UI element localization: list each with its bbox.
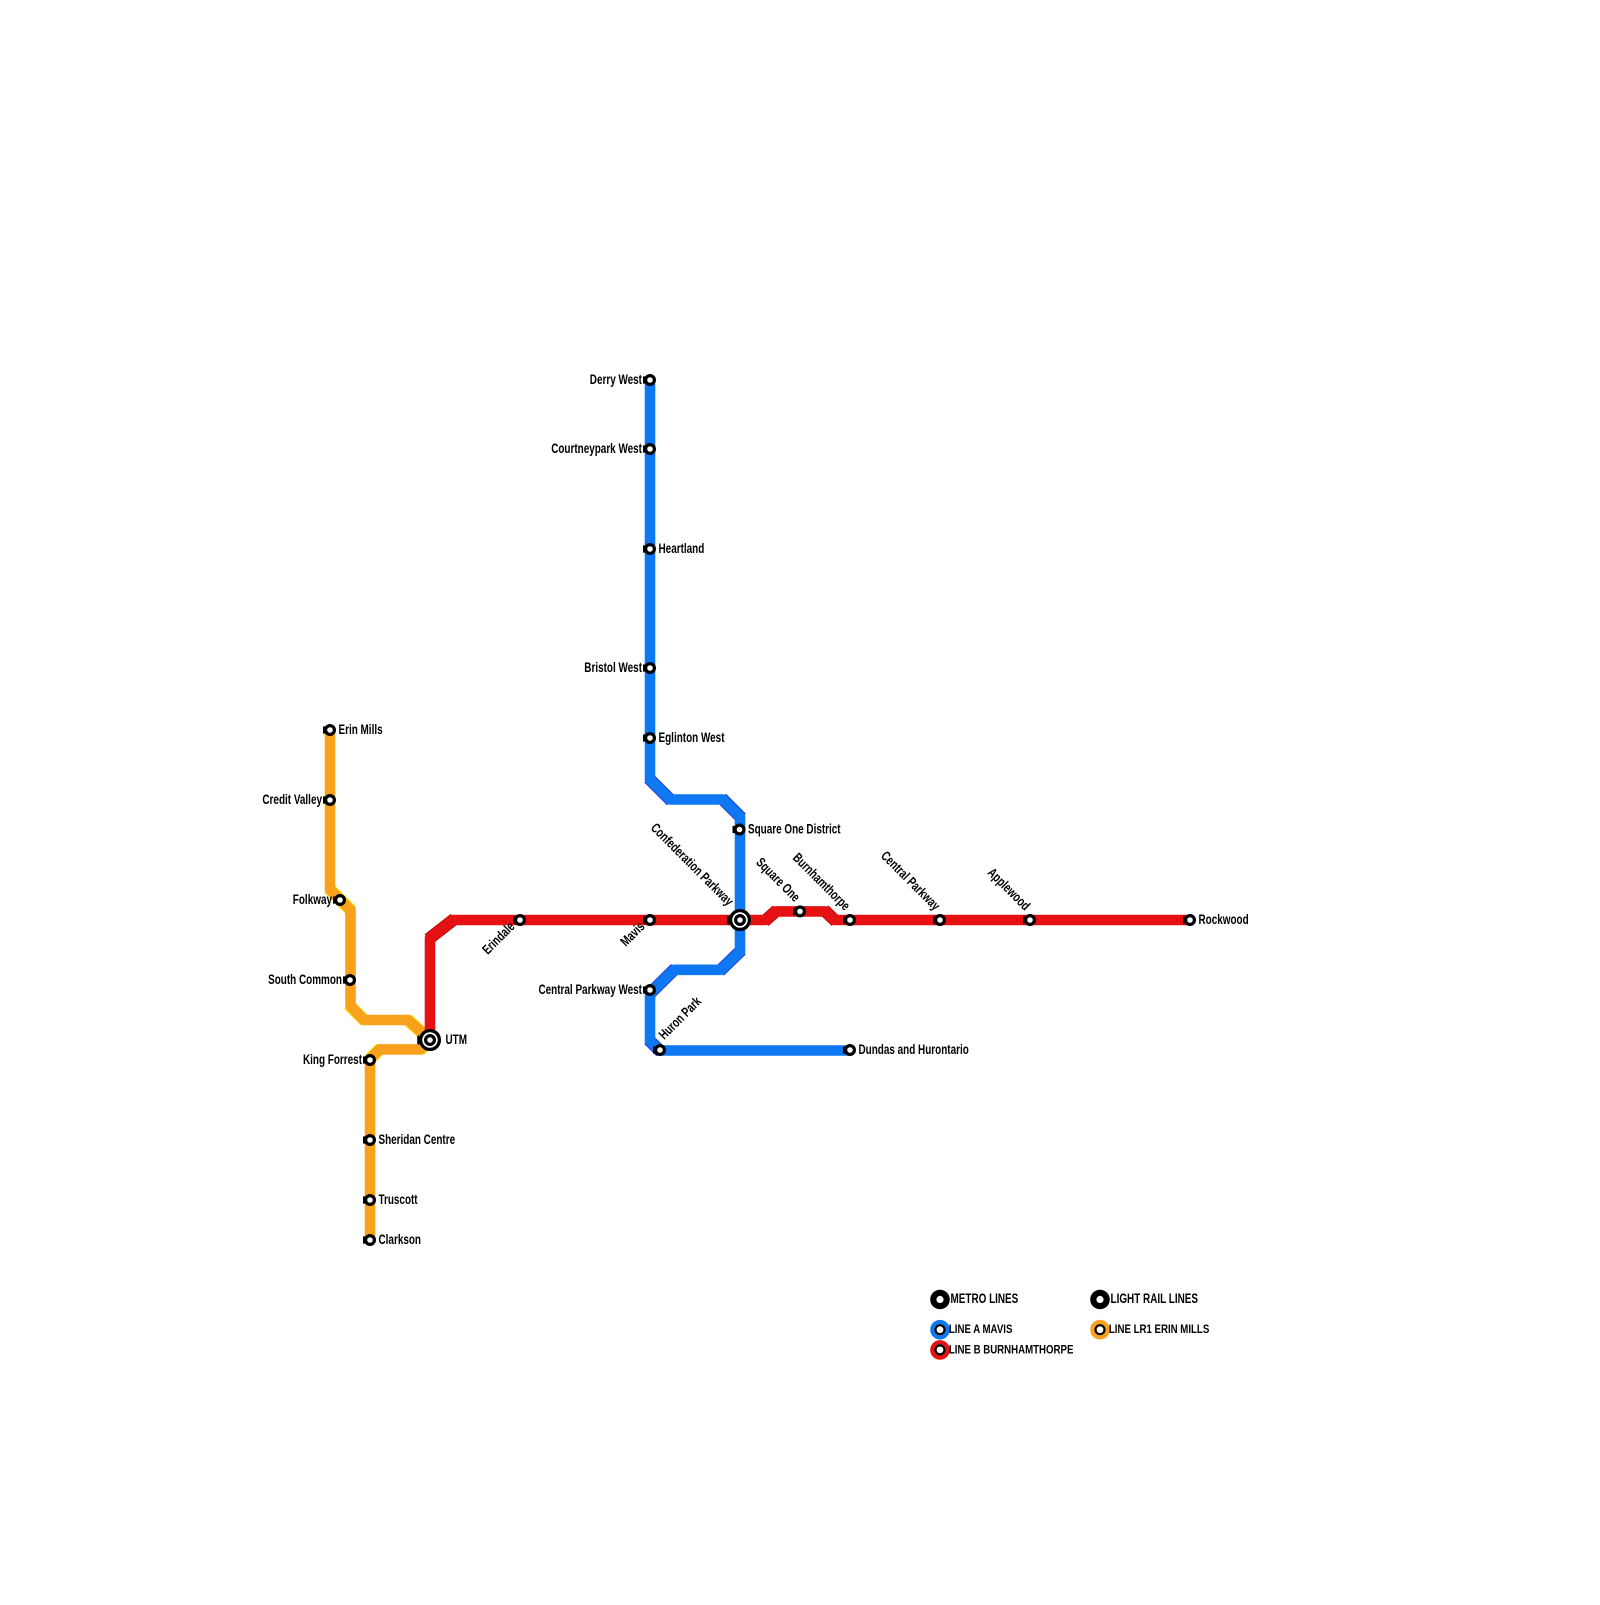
svg-text:Heartland: Heartland [659, 541, 705, 556]
svg-text:Central Parkway West: Central Parkway West [539, 982, 643, 997]
svg-text:Erin Mills: Erin Mills [339, 722, 383, 737]
svg-text:LINE A MAVIS: LINE A MAVIS [949, 1324, 1013, 1336]
svg-text:Bristol West: Bristol West [584, 660, 642, 675]
svg-text:Rockwood: Rockwood [1199, 912, 1249, 927]
svg-text:Credit Valley: Credit Valley [262, 792, 322, 807]
svg-text:Eglinton West: Eglinton West [659, 730, 725, 745]
svg-text:Dundas and Hurontario: Dundas and Hurontario [859, 1042, 969, 1057]
svg-text:Folkway: Folkway [293, 892, 333, 907]
svg-text:UTM: UTM [446, 1032, 468, 1047]
svg-text:LIGHT RAIL LINES: LIGHT RAIL LINES [1111, 1291, 1199, 1306]
svg-text:LINE LR1 ERIN MILLS: LINE LR1 ERIN MILLS [1109, 1324, 1210, 1336]
svg-text:Courtneypark West: Courtneypark West [551, 441, 642, 456]
svg-text:Sheridan Centre: Sheridan Centre [379, 1132, 456, 1147]
svg-text:LINE B BURNHAMTHORPE: LINE B BURNHAMTHORPE [949, 1344, 1074, 1356]
svg-text:Truscott: Truscott [379, 1192, 418, 1207]
svg-text:South Common: South Common [268, 972, 342, 987]
svg-text:Square One District: Square One District [748, 822, 841, 837]
svg-text:Clarkson: Clarkson [379, 1232, 422, 1247]
svg-text:Derry West: Derry West [590, 372, 643, 387]
svg-text:METRO LINES: METRO LINES [951, 1291, 1019, 1306]
svg-text:King Forrest: King Forrest [303, 1052, 362, 1067]
